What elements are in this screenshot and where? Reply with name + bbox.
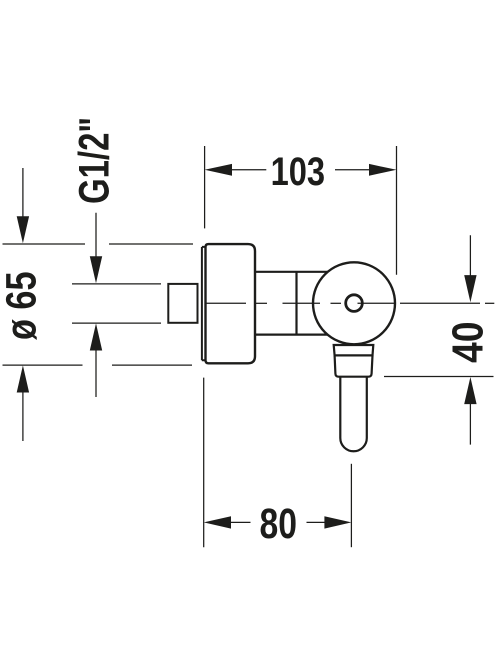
knob hub small circle <box>346 295 363 312</box>
svg-text:80: 80 <box>260 501 298 548</box>
handle ferrule <box>335 355 373 376</box>
svg-text:103: 103 <box>271 150 326 194</box>
arrowhead 80 left <box>204 516 231 528</box>
escutcheon flange <box>206 244 256 363</box>
arrowhead 103 left <box>205 164 232 176</box>
supply nipple G1/2 <box>168 284 197 323</box>
arrowhead G1/2 down <box>90 256 102 283</box>
centerline horizontal axis <box>207 302 495 304</box>
arrowhead 40 down <box>464 275 476 302</box>
dimension 103 extension line left <box>204 146 206 228</box>
handle neck trapezoid <box>334 345 374 355</box>
knob circle <box>313 262 395 344</box>
dimension o65 top extension line <box>3 243 194 245</box>
arrowhead 80 right <box>324 516 351 528</box>
arrowhead o65 up <box>17 365 29 392</box>
svg-text:G1/2": G1/2" <box>71 117 119 204</box>
dimension 80 leader tails <box>230 521 326 523</box>
arrowhead G1/2 up <box>90 323 102 350</box>
valve body bottom line <box>256 334 328 336</box>
dimension 80 extension line left <box>203 378 205 548</box>
svg-text:40: 40 <box>444 322 493 364</box>
dimension 40 arrow tails <box>469 235 471 444</box>
thread G1/2 top extension line <box>72 283 161 285</box>
thread G1/2 arrow tails <box>95 213 97 397</box>
thread G1/2 bottom extension line <box>72 322 161 324</box>
dimension o65 arrow tails <box>22 168 24 441</box>
valve body top line <box>256 271 328 273</box>
arrowhead o65 down <box>17 216 29 243</box>
dimension 40 bottom extension line <box>384 376 494 378</box>
dimension 80 extension line right <box>350 464 352 547</box>
svg-text:ø 65: ø 65 <box>0 272 46 341</box>
handle lever rod <box>340 377 367 452</box>
wall plate edge strip <box>202 247 206 360</box>
valve body division line <box>295 272 297 335</box>
dimension o65 bottom extension line <box>3 364 193 366</box>
dimension 103 extension line right <box>396 146 398 275</box>
dimension 103 leader tails <box>232 169 369 171</box>
arrowhead 103 right <box>369 164 397 176</box>
arrowhead 40 up <box>464 377 476 404</box>
